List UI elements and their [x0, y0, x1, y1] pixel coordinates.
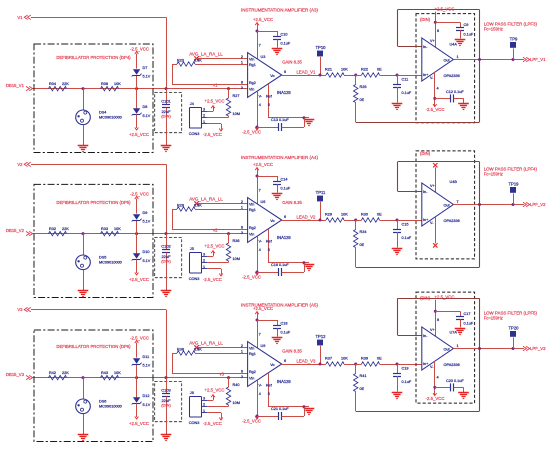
svg-text:1: 1 [457, 344, 459, 348]
svg-text:DEFIBRILLATOR PROTECTION (DP4): DEFIBRILLATOR PROTECTION (DP4) [56, 55, 131, 60]
capacitor C21 0.1uF [257, 407, 305, 420]
svg-text:0E: 0E [360, 98, 365, 102]
svg-text:Vo: Vo [270, 363, 274, 367]
svg-text:R32: R32 [49, 227, 56, 231]
svg-text:CON3: CON3 [189, 421, 200, 425]
wire J pin3 to +2.5_VCC [205, 244, 225, 257]
wire lpf output [453, 347, 524, 350]
svg-text:R42: R42 [49, 371, 56, 375]
wire filter to In+ [397, 220, 422, 222]
wire J pin3 to +2.5_VCC [205, 388, 225, 401]
svg-text:C11: C11 [402, 78, 409, 82]
capacitor C102 22uF [161, 232, 171, 290]
svg-text:1: 1 [203, 409, 205, 413]
svg-text:LPF_V1: LPF_V1 [530, 57, 546, 62]
svg-text:LEAD_V1: LEAD_V1 [297, 69, 316, 74]
ground (amp top cap) [272, 194, 283, 200]
off-page connector LPF_V3 [523, 346, 546, 351]
resistor R32 22K [49, 227, 70, 236]
net label LEAD_V2 [282, 214, 326, 220]
no-connect V- [433, 217, 437, 247]
svg-text:C13 0.1uF: C13 0.1uF [271, 118, 289, 122]
test point TP11 [316, 190, 326, 221]
ground (cap) [161, 291, 172, 297]
resistor R42 22K [49, 371, 70, 380]
svg-text:DS4: DS4 [99, 110, 106, 114]
capacitor C101 22uF [161, 87, 171, 145]
capacitor C18 0.1uF [257, 320, 291, 337]
svg-text:8: 8 [241, 226, 243, 230]
defibrillator protection box DP6 [34, 330, 153, 442]
svg-text:R29: R29 [325, 213, 332, 217]
low pass filter box (U4B) [416, 151, 475, 259]
svg-text:0.1uF: 0.1uF [402, 91, 412, 95]
capacitor C103 22uF [161, 376, 171, 434]
svg-text:10M: 10M [233, 257, 240, 261]
resistor R28 6.8K [172, 204, 248, 230]
test point TP12 [315, 334, 326, 365]
svg-text:5: 5 [268, 103, 270, 107]
svg-text:+2.5_VCC: +2.5_VCC [253, 162, 273, 167]
svg-text:GAIN 8.35: GAIN 8.35 [282, 60, 302, 65]
wire J pin1 to -2.5_VCC [203, 413, 223, 427]
wire feedback loop [356, 10, 480, 123]
svg-text:D9: D9 [143, 211, 148, 215]
ground (amp top cap) [272, 338, 283, 344]
resistor R36 10M [226, 232, 240, 262]
svg-text:CON3: CON3 [189, 132, 200, 136]
svg-text:Rg2: Rg2 [249, 226, 256, 230]
ground (ref) [304, 265, 315, 271]
svg-text:22K: 22K [62, 227, 69, 231]
svg-text:(DIN): (DIN) [420, 17, 431, 22]
svg-text:D8: D8 [143, 105, 148, 109]
net label AVG_LA_RA_LL [189, 340, 223, 349]
svg-text:6.8K: 6.8K [194, 204, 202, 208]
capacitor C19 0.1uF [393, 364, 412, 392]
svg-text:C20 0.1uF: C20 0.1uF [446, 379, 464, 383]
svg-text:-2.5_VCC: -2.5_VCC [426, 107, 445, 112]
resistor R21 10K [325, 68, 357, 78]
label (DIN) [420, 295, 431, 300]
power +2.5_VCC (amp top) [253, 17, 273, 59]
svg-text:2: 2 [203, 259, 205, 263]
gas discharge tube DS4 MC09010000 [76, 87, 122, 145]
resistor R38 6.8K [172, 348, 248, 374]
pin 7 label [259, 188, 261, 192]
wire net V2 top [31, 164, 167, 233]
svg-text:TP12: TP12 [315, 334, 326, 339]
svg-text:LEAD_V2: LEAD_V2 [297, 214, 316, 219]
wire filter to In+ [397, 75, 422, 77]
pin 8 label [437, 318, 439, 322]
svg-text:U3: U3 [261, 55, 266, 59]
svg-text:2: 2 [241, 344, 243, 348]
svg-text:10K: 10K [341, 68, 348, 72]
net label LEAD_V3 [282, 358, 326, 364]
ground (ref) [304, 409, 315, 415]
svg-text:R27: R27 [233, 94, 240, 98]
svg-text:0E: 0E [377, 68, 382, 72]
off-page connector DB15_V1 [6, 83, 33, 91]
wire V- to -2.5_VCC (lpf) [426, 72, 445, 112]
svg-text:(DIN): (DIN) [161, 403, 171, 408]
svg-text:-2.5_VCC: -2.5_VCC [203, 421, 222, 426]
op-amp U3 INA128 [241, 53, 303, 98]
wire V- to -2.5_VCC [242, 380, 263, 423]
svg-text:6: 6 [284, 215, 286, 219]
svg-text:1: 1 [241, 350, 243, 354]
svg-text:MC09010000: MC09010000 [99, 404, 122, 408]
svg-text:R43: R43 [101, 371, 108, 375]
net label AVG_LA_RA_LL [189, 196, 223, 205]
svg-text:R37: R37 [325, 357, 332, 361]
test point TP20 [508, 326, 519, 349]
power +2.5_VCC (amp top) [253, 162, 273, 204]
svg-text:V+: V+ [430, 328, 435, 332]
ground (lpf top cap) [455, 329, 466, 335]
zener diode D7 5.1V [130, 46, 151, 90]
svg-text:J4: J4 [190, 102, 194, 106]
wire AVG to pin2 [197, 58, 248, 60]
power +2.5_VCC (lpf) [434, 295, 455, 337]
svg-text:0E: 0E [360, 243, 365, 247]
svg-text:Vin: Vin [249, 87, 254, 91]
svg-text:10K: 10K [114, 371, 121, 375]
svg-text:C15: C15 [402, 223, 409, 227]
svg-text:8: 8 [241, 370, 243, 374]
svg-text:C12 0.1uF: C12 0.1uF [446, 90, 464, 94]
svg-text:3: 3 [203, 252, 205, 256]
svg-text:LPF_V2: LPF_V2 [530, 202, 546, 207]
low pass filter box (U7A) [416, 292, 475, 403]
svg-text:+2.5_VCC: +2.5_VCC [129, 132, 149, 137]
ground (lpf top cap) [455, 40, 466, 46]
resistor R33 10K [101, 227, 122, 236]
svg-text:2: 2 [203, 403, 205, 407]
op-amp U4A OPA2336 [422, 38, 460, 81]
wire V- to -2.5_VCC [242, 236, 263, 279]
svg-text:C19: C19 [402, 367, 409, 371]
defibrillator protection box DP5 [34, 184, 153, 297]
svg-text:C18: C18 [281, 322, 288, 326]
svg-text:D7: D7 [143, 66, 148, 70]
svg-text:In+: In+ [423, 218, 428, 222]
wire AVG to pin2 [197, 203, 248, 205]
svg-text:CON3: CON3 [189, 277, 200, 281]
svg-text:V+: V+ [430, 184, 435, 188]
svg-text:C16 0.1uF: C16 0.1uF [271, 263, 289, 267]
svg-text:D11: D11 [143, 355, 150, 359]
svg-text:R39: R39 [361, 357, 368, 361]
svg-text:4: 4 [259, 103, 261, 107]
svg-text:1: 1 [203, 265, 205, 269]
svg-text:4: 4 [437, 376, 439, 380]
svg-text:5.1V: 5.1V [143, 259, 151, 263]
svg-text:INA128: INA128 [277, 379, 291, 384]
svg-text:7: 7 [259, 188, 261, 192]
net label AVG_LA_RA_LL [189, 51, 223, 60]
wire lpf output [453, 58, 524, 61]
svg-text:7: 7 [259, 332, 261, 336]
resistor R27 10M [226, 87, 240, 117]
svg-text:TP20: TP20 [508, 326, 519, 331]
svg-text:OPA2336: OPA2336 [444, 219, 460, 223]
svg-text:Rg1: Rg1 [249, 352, 256, 356]
capacitor C9 0.1uF [435, 22, 474, 38]
wire lpf output [453, 203, 524, 206]
power +2.5_VCC (amp top) [253, 306, 273, 348]
svg-text:0.1uF: 0.1uF [464, 32, 474, 36]
pin 7 label [259, 332, 261, 336]
svg-text:7: 7 [457, 200, 459, 204]
svg-text:10M: 10M [233, 401, 240, 405]
svg-text:R21: R21 [325, 68, 332, 72]
title instrumentation amplifier (A3) [241, 8, 319, 13]
svg-text:U4B: U4B [450, 180, 458, 184]
svg-text:10K: 10K [341, 213, 348, 217]
svg-text:INA128: INA128 [277, 235, 291, 240]
svg-text:TP10: TP10 [315, 45, 326, 50]
wire J pin2 to Rbias [207, 117, 229, 119]
svg-text:R36: R36 [233, 239, 240, 243]
off-page connector DB15_V3 [6, 372, 33, 380]
svg-text:V-: V- [259, 95, 263, 99]
svg-text:10K: 10K [114, 227, 121, 231]
svg-text:+2.5_VCC: +2.5_VCC [435, 6, 455, 11]
svg-text:LEAD_V3: LEAD_V3 [297, 358, 316, 363]
svg-text:0.1uF: 0.1uF [402, 380, 412, 384]
title low pass filter (LPF5) [484, 310, 538, 320]
svg-text:INSTRUMENTATION AMPLIFIER (A4): INSTRUMENTATION AMPLIFIER (A4) [241, 155, 319, 160]
svg-text:DS6: DS6 [99, 399, 106, 403]
ground (filter cap) [392, 104, 403, 110]
svg-text:R33: R33 [101, 227, 108, 231]
svg-text:TP9: TP9 [510, 37, 518, 42]
svg-text:5.1V: 5.1V [143, 403, 151, 407]
ground (cap) [161, 146, 172, 152]
svg-text:V-: V- [259, 240, 263, 244]
svg-text:V3: V3 [17, 307, 23, 312]
svg-text:INSTRUMENTATION AMPLIFIER (A3): INSTRUMENTATION AMPLIFIER (A3) [241, 8, 319, 13]
svg-text:(DIN): (DIN) [420, 151, 431, 156]
svg-text:Out: Out [444, 348, 450, 352]
capacitor C17 0.1uF [435, 311, 474, 327]
no-connect V+ [433, 163, 437, 192]
svg-text:7: 7 [259, 43, 261, 47]
svg-text:+2.5_VCC: +2.5_VCC [129, 277, 149, 282]
capacitor C101 22uF box [155, 92, 182, 132]
svg-text:Vo: Vo [270, 74, 274, 78]
svg-text:R30: R30 [361, 213, 368, 217]
svg-text:Fc=159Hz: Fc=159Hz [484, 172, 503, 177]
svg-text:-2.5_VCC: -2.5_VCC [242, 418, 261, 423]
svg-text:0E: 0E [377, 213, 382, 217]
svg-text:Out: Out [444, 59, 450, 63]
svg-text:J6: J6 [190, 391, 194, 395]
svg-text:AVG_LA_RA_LL: AVG_LA_RA_LL [189, 340, 223, 345]
svg-text:0.1uF: 0.1uF [281, 330, 291, 334]
resistor R43 10K [101, 371, 122, 380]
svg-text:MC09010000: MC09010000 [99, 260, 122, 264]
capacitor C102 22uF box [155, 237, 182, 277]
test point TP10 [315, 45, 326, 76]
title instrumentation amplifier (A4) [241, 155, 319, 160]
svg-text:22K: 22K [62, 371, 69, 375]
ground (tube) [78, 146, 89, 152]
svg-text:LPF_V3: LPF_V3 [530, 346, 546, 351]
svg-text:C103: C103 [161, 388, 171, 393]
svg-text:V-: V- [430, 221, 434, 225]
svg-text:Vin: Vin [249, 376, 254, 380]
svg-text:TP19: TP19 [508, 182, 519, 187]
svg-text:+2.5_VCC: +2.5_VCC [435, 295, 455, 300]
svg-text:2: 2 [241, 200, 243, 204]
wire J pin2 to Rbias [207, 262, 229, 264]
svg-text:DS5: DS5 [99, 255, 106, 259]
svg-text:R22: R22 [361, 68, 368, 72]
pin 8 label [437, 29, 439, 33]
resistor R30 0E [356, 213, 399, 223]
svg-text:J5: J5 [190, 247, 194, 251]
off-page connector V1 [17, 15, 30, 20]
svg-text:Rg1: Rg1 [249, 63, 256, 67]
svg-text:Vin: Vin [249, 232, 254, 236]
gas discharge tube DS5 MC09010000 [76, 232, 122, 290]
svg-text:0.1uF: 0.1uF [464, 321, 474, 325]
wire main input [32, 377, 248, 379]
svg-text:8: 8 [437, 29, 439, 33]
test point TP9 [510, 37, 518, 60]
svg-text:-2.5_VCC: -2.5_VCC [130, 335, 149, 340]
svg-text:1: 1 [457, 55, 459, 59]
capacitor C12 0.1uF [435, 90, 465, 103]
svg-text:0.1uF: 0.1uF [402, 236, 412, 240]
svg-text:D10: D10 [143, 250, 150, 254]
off-page connector V3 [17, 307, 30, 312]
power +2.5_VCC (lpf) [434, 6, 455, 47]
resistor R04 22K [49, 82, 70, 91]
net label v2 [213, 227, 218, 232]
capacitor C20 0.1uF [435, 379, 465, 392]
wire J pin3 to +2.5_VCC [205, 99, 225, 112]
svg-text:5.1V: 5.1V [143, 364, 151, 368]
svg-text:TP11: TP11 [316, 190, 326, 195]
wire feedback loop [356, 162, 480, 268]
svg-text:INA128: INA128 [277, 90, 291, 95]
capacitor C14 0.1uF [257, 176, 291, 193]
svg-text:AVG_LA_RA_LL: AVG_LA_RA_LL [189, 196, 223, 201]
svg-text:U6: U6 [261, 200, 266, 204]
ground (filter cap) [392, 393, 403, 399]
svg-text:Ref: Ref [266, 95, 273, 99]
svg-text:OPA2336: OPA2336 [444, 363, 460, 367]
svg-text:0.1uF: 0.1uF [281, 186, 291, 190]
resistor R08 10K [101, 82, 122, 91]
svg-text:In+: In+ [423, 362, 428, 366]
svg-text:R38: R38 [177, 348, 184, 352]
svg-text:V2: V2 [17, 162, 23, 167]
svg-text:3: 3 [241, 375, 243, 379]
svg-text:(DIN): (DIN) [420, 295, 431, 300]
op-amp U4B OPA2336 [422, 180, 460, 226]
svg-text:(DIN): (DIN) [161, 114, 171, 119]
ground (lpf bottom cap) [458, 393, 469, 399]
svg-text:10K: 10K [341, 357, 348, 361]
op-amp U6 INA128 [241, 198, 303, 243]
wire net V1 top [31, 17, 167, 88]
ground (amp top cap) [272, 49, 283, 55]
svg-text:DB15_V1: DB15_V1 [6, 83, 25, 88]
zener diode D9 5.1V [130, 191, 151, 235]
label (DIN) [420, 17, 431, 22]
svg-text:Vin: Vin [249, 346, 254, 350]
svg-text:-2.5_VCC: -2.5_VCC [203, 132, 222, 137]
svg-text:C17: C17 [464, 312, 471, 316]
svg-text:10K: 10K [114, 82, 121, 86]
zener diode D12 5.1V [129, 378, 151, 426]
svg-text:+2.5_VCC: +2.5_VCC [205, 244, 225, 249]
svg-text:Ref: Ref [266, 240, 273, 244]
svg-text:AVG_LA_RA_LL: AVG_LA_RA_LL [189, 51, 223, 56]
svg-text:22K: 22K [62, 82, 69, 86]
wire Ref to ground [266, 229, 309, 264]
wire V- to -2.5_VCC (lpf) [426, 361, 445, 401]
wire net V3 top [31, 310, 167, 378]
capacitor C15 0.1uF [393, 220, 412, 248]
ground (tube) [78, 435, 89, 441]
ground (tube) [78, 291, 89, 297]
connector J4 CON3 [189, 102, 207, 136]
wire V- to -2.5_VCC [242, 91, 263, 134]
wire main input [32, 88, 248, 90]
svg-text:-2.5_VCC: -2.5_VCC [130, 46, 149, 51]
svg-text:-2.5_VCC: -2.5_VCC [426, 396, 445, 401]
wire Ref to ground [266, 84, 309, 119]
svg-text:V-: V- [259, 384, 263, 388]
svg-text:5.1V: 5.1V [143, 114, 151, 118]
svg-text:5.1V: 5.1V [143, 220, 151, 224]
resistor R39 0E [356, 357, 399, 367]
ground (filter cap) [392, 249, 403, 255]
ground (ref) [304, 120, 315, 126]
svg-text:5: 5 [268, 248, 270, 252]
svg-text:Out: Out [444, 204, 450, 208]
label (DIN) [420, 151, 431, 156]
capacitor C103 22uF box [155, 381, 182, 421]
svg-text:+2.5_VCC: +2.5_VCC [129, 421, 149, 426]
svg-text:-2.5_VCC: -2.5_VCC [130, 191, 149, 196]
connector J6 CON3 [189, 391, 207, 425]
wire main input [32, 233, 248, 235]
svg-text:C10: C10 [281, 33, 288, 37]
svg-text:DEFIBRILLATOR PROTECTION (DP5): DEFIBRILLATOR PROTECTION (DP5) [56, 200, 131, 205]
svg-text:U4A: U4A [450, 42, 458, 46]
connector J5 CON3 [189, 247, 207, 281]
svg-text:R41: R41 [360, 374, 367, 378]
svg-text:0.1uF: 0.1uF [281, 41, 291, 45]
off-page connector LPF_V2 [523, 202, 546, 207]
svg-text:0E: 0E [377, 357, 382, 361]
zener diode D11 5.1V [130, 335, 151, 379]
svg-text:OPA2336: OPA2336 [444, 74, 460, 78]
svg-text:Ref: Ref [266, 384, 273, 388]
resistor R34 0E [354, 220, 367, 267]
net label LEAD_V1 [282, 69, 326, 75]
pin 7 label [259, 43, 261, 47]
svg-text:6.8K: 6.8K [194, 59, 202, 63]
svg-text:6: 6 [284, 70, 286, 74]
